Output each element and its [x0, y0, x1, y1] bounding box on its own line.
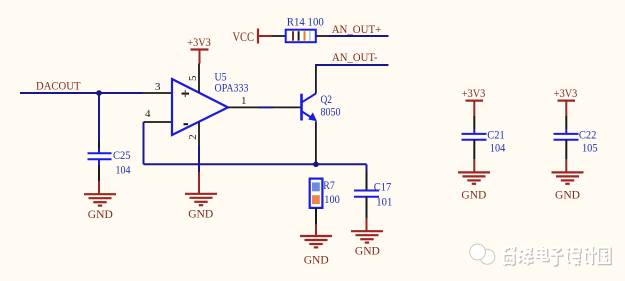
ground GND under R7 — [300, 236, 332, 247]
capacitor C21 — [462, 133, 487, 135]
ground GND under C25 — [84, 194, 116, 205]
ground GND under C21 — [458, 172, 490, 183]
svg-text:C25: C25 — [113, 148, 131, 162]
pin lead Q2 collector — [315, 65, 317, 94]
pin lead R7 bottom — [315, 208, 317, 224]
svg-text:AN_OUT+: AN_OUT+ — [332, 22, 382, 36]
svg-text:R14 100: R14 100 — [287, 15, 324, 29]
node junction DACOUT/C25 — [96, 90, 102, 96]
svg-text:GND: GND — [555, 188, 580, 202]
wire AN_OUT- — [315, 64, 389, 66]
pin 2 lead of U5 — [198, 122, 200, 146]
pin lead C22 bottom — [565, 140, 567, 159]
pin 3 lead of U5 — [143, 92, 173, 94]
pin lead R14 left — [272, 35, 286, 37]
svg-text:GND: GND — [188, 207, 213, 221]
pin 5 lead of U5 — [198, 64, 200, 93]
svg-text:VCC: VCC — [233, 30, 255, 44]
svg-text:4: 4 — [145, 108, 151, 120]
pin lead C17 top — [366, 172, 368, 190]
svg-text:8050: 8050 — [321, 105, 341, 119]
svg-text:OPA333: OPA333 — [215, 80, 249, 94]
pin 1 output lead of U5 — [228, 106, 258, 108]
pin lead C21 bottom — [473, 140, 475, 159]
pin lead C17 bottom — [366, 197, 368, 218]
svg-text:5: 5 — [187, 75, 199, 81]
svg-text:GND: GND — [88, 207, 113, 221]
svg-text:100: 100 — [324, 192, 340, 206]
wire to C25 — [98, 93, 100, 142]
svg-text:104: 104 — [116, 163, 131, 177]
transistor Q2 — [300, 94, 303, 121]
pin lead C22 top — [565, 116, 567, 129]
wire output to Q2 base — [258, 106, 273, 108]
pin 4 lead of U5 — [144, 121, 173, 123]
ground GND under U5 — [185, 194, 217, 205]
svg-text:GND: GND — [304, 253, 329, 267]
wire pin2 to ground — [198, 146, 200, 172]
svg-text:1: 1 — [241, 95, 247, 107]
svg-text:+3V3: +3V3 — [554, 86, 578, 100]
wire AN_OUT+ — [329, 35, 389, 37]
svg-text:+3V3: +3V3 — [187, 35, 211, 49]
svg-text:C21: C21 — [487, 128, 505, 142]
capacitor C22 — [554, 133, 579, 135]
wire feedback loop — [143, 122, 145, 164]
resistor R14 — [286, 30, 316, 43]
svg-text:C22: C22 — [579, 128, 597, 142]
capacitor C17 — [354, 190, 379, 192]
resistor R7 — [310, 179, 323, 208]
wire DACOUT net — [20, 92, 143, 94]
svg-text:AN_OUT-: AN_OUT- — [332, 50, 378, 64]
pin lead C25 top — [98, 142, 100, 150]
pin lead Q2 emitter — [315, 121, 317, 164]
pin lead Q2 base — [273, 106, 301, 108]
capacitor C25 — [88, 152, 112, 154]
pin lead C25 bottom — [98, 159, 100, 165]
svg-text:R7: R7 — [323, 178, 335, 192]
watermark: logo + stylized glyph strokes, gray shadow + white — [470, 244, 611, 266]
svg-text:3: 3 — [155, 81, 161, 93]
svg-text:104: 104 — [490, 141, 506, 155]
svg-text:DACOUT: DACOUT — [36, 79, 81, 93]
pin lead R14 right — [316, 35, 329, 37]
wire C17 top — [366, 164, 368, 171]
svg-text:105: 105 — [582, 141, 598, 155]
svg-text:C17: C17 — [374, 180, 392, 194]
op-amp U5 triangle — [172, 79, 228, 135]
svg-text:GND: GND — [461, 188, 486, 202]
pin lead C21 top — [473, 116, 475, 129]
ground GND under C22 — [552, 172, 584, 183]
svg-text:101: 101 — [376, 195, 392, 209]
op-amp plus input mark — [182, 93, 189, 95]
node junction emitter/R7 — [313, 162, 319, 168]
svg-text:2: 2 — [187, 134, 199, 140]
svg-text:+3V3: +3V3 — [462, 86, 486, 100]
svg-text:GND: GND — [355, 244, 380, 258]
ground GND under C17 — [351, 231, 383, 242]
op-amp minus input mark — [184, 123, 189, 125]
